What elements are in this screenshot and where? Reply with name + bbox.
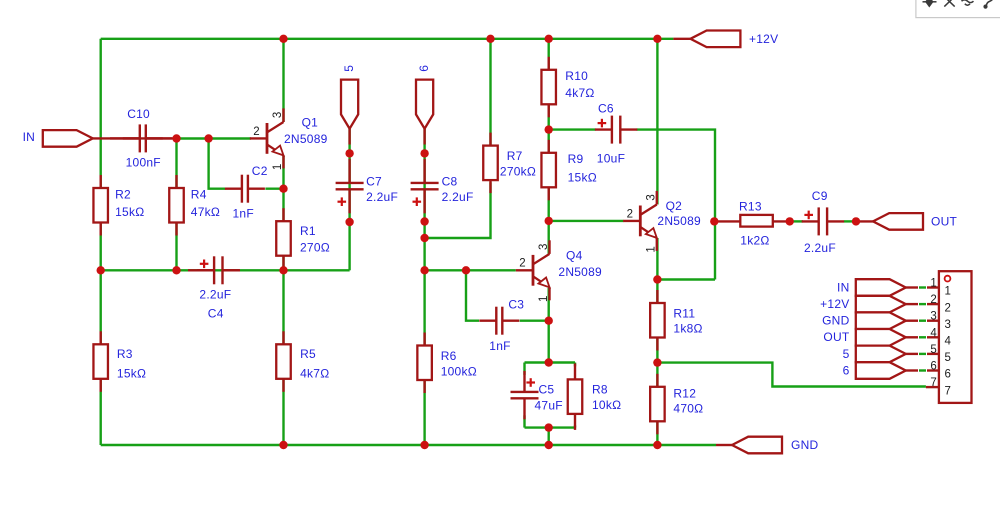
wire C5 R8 top bar: [525, 361, 576, 363]
junction IN row / R4: [172, 134, 180, 142]
svg-text:4: 4: [945, 336, 952, 348]
svg-text:C10: C10: [127, 107, 150, 121]
resistor R2: [93, 175, 144, 236]
svg-text:Q1: Q1: [302, 115, 319, 129]
junction port5 / C7: [345, 149, 353, 157]
capacitor C9 polarized: [802, 207, 844, 235]
capacitor C8 polarized: [411, 159, 439, 213]
wire R12 column: [656, 363, 658, 445]
junction bottom rail / R12: [653, 441, 661, 449]
wire R9 to Q2 base node: [548, 187, 550, 221]
junction Q1 emitter / C2 / R1: [279, 185, 287, 193]
svg-text:+12V: +12V: [820, 297, 849, 311]
connector flag OUT row 4: [856, 329, 939, 346]
wire C5 R8 bottom bar: [525, 426, 576, 428]
svg-text:2: 2: [930, 294, 937, 306]
wire R10 to rail: [548, 39, 550, 70]
svg-text:2.2uF: 2.2uF: [442, 190, 474, 204]
svg-text:OUT: OUT: [823, 330, 850, 344]
svg-text:5: 5: [945, 352, 952, 364]
svg-text:Q4: Q4: [566, 248, 583, 262]
svg-text:1nF: 1nF: [233, 207, 254, 221]
svg-text:7: 7: [930, 377, 937, 389]
wire C6 node to R9: [548, 130, 550, 153]
wire C2 to Q1 emitter node: [265, 187, 283, 189]
svg-text:2.2uF: 2.2uF: [199, 288, 231, 302]
junction R13 / C9: [786, 217, 794, 225]
resistor R10: [541, 57, 594, 118]
wire C8 to R7 link: [425, 182, 491, 238]
junction Q2 emitter: [653, 275, 661, 283]
wire R6 column: [423, 270, 425, 445]
wire R5 column: [282, 270, 284, 445]
resistor R12: [650, 374, 703, 435]
svg-text:2: 2: [253, 126, 259, 138]
svg-text:R7: R7: [507, 149, 523, 163]
junction C8 / R7 link: [420, 234, 428, 242]
toolbar icon close: [944, 0, 954, 7]
wire R8 arm top: [574, 363, 576, 367]
wire C3 to Q4 emitter node: [520, 320, 549, 322]
svg-text:C7: C7: [366, 175, 382, 189]
transistor Q2: [623, 191, 701, 253]
wire GND bottom rail: [101, 444, 716, 446]
svg-text:100kΩ: 100kΩ: [441, 365, 477, 379]
junction bottom rail / R5: [279, 441, 287, 449]
svg-text:10uF: 10uF: [597, 152, 625, 166]
resistor R13: [714, 215, 789, 227]
junction top rail / R10: [545, 35, 553, 43]
svg-text:4k7Ω: 4k7Ω: [300, 366, 329, 380]
port IN flag: [43, 130, 177, 147]
svg-text:R13: R13: [739, 200, 762, 214]
port 5 flag: [341, 80, 358, 145]
svg-text:270Ω: 270Ω: [300, 241, 330, 255]
svg-text:2N5089: 2N5089: [558, 265, 602, 279]
svg-text:GND: GND: [791, 438, 819, 452]
connector J1 box: [939, 271, 972, 403]
connector flag 6 row 6: [856, 362, 939, 379]
wire R13 node to C9: [790, 220, 803, 222]
svg-text:2N5089: 2N5089: [284, 132, 328, 146]
svg-text:R5: R5: [300, 347, 316, 361]
svg-text:C5: C5: [539, 383, 555, 397]
junction output node / R13: [710, 217, 718, 225]
junction bias row / R1: [279, 266, 287, 274]
junction IN row / C2 branch: [204, 134, 212, 142]
junction bottom rail / R6: [420, 441, 428, 449]
transistor Q1: [250, 108, 328, 170]
junction top rail / R7: [486, 35, 494, 43]
wire C6 left wire: [549, 128, 596, 130]
wire R7 to rail: [489, 39, 491, 146]
svg-text:100nF: 100nF: [126, 155, 161, 169]
capacitor C4 polarized: [197, 256, 239, 284]
svg-text:2: 2: [519, 258, 525, 270]
junction bias row / R2 R3: [97, 266, 105, 274]
wire bias row: [101, 269, 350, 271]
wire R8 arm bottom: [574, 425, 576, 427]
junction C8 col / Q4 base row: [420, 266, 428, 274]
svg-text:5: 5: [843, 347, 850, 361]
svg-text:R3: R3: [117, 347, 133, 361]
junction C7 bottom: [345, 218, 353, 226]
connector flag 5 row 5: [856, 346, 939, 363]
toolbar icon settings: [962, 0, 974, 5]
wire IN row segment to Q1 base: [209, 137, 251, 139]
svg-text:5: 5: [930, 344, 937, 356]
svg-text:1k8Ω: 1k8Ω: [673, 322, 702, 336]
wire C6 right wire to output node: [637, 130, 715, 280]
wire Q4 emitter link: [548, 288, 550, 321]
svg-text:4: 4: [930, 327, 937, 339]
junction C9 / OUT: [852, 217, 860, 225]
svg-text:2.2uF: 2.2uF: [804, 241, 836, 255]
svg-text:470Ω: 470Ω: [673, 402, 703, 416]
capacitor C3: [479, 307, 519, 335]
svg-text:1nF: 1nF: [489, 339, 510, 353]
svg-text:15kΩ: 15kΩ: [568, 171, 597, 185]
wire C7 column: [348, 129, 350, 222]
svg-text:7: 7: [945, 385, 952, 397]
wire C3 branch: [466, 270, 479, 320]
junction Q4 emitter / C3: [545, 317, 553, 325]
wire wire to header pin7: [657, 363, 926, 387]
junction C5 R8 bottom: [545, 423, 553, 431]
resistor R4: [169, 175, 220, 236]
wire C5 left arm bottom: [523, 415, 525, 427]
toolbar icon help: [984, 0, 993, 8]
C4 right pin extension: [222, 269, 240, 271]
svg-text:R4: R4: [191, 187, 207, 201]
wire Q2 emitter link: [656, 238, 658, 280]
svg-text:2N5089: 2N5089: [657, 214, 701, 228]
svg-text:2: 2: [627, 208, 633, 220]
wire C2 branch: [209, 139, 226, 189]
svg-text:R12: R12: [673, 387, 696, 401]
wire Q2 collector to rail: [656, 39, 658, 205]
wire R4 column: [175, 139, 177, 271]
svg-text:C3: C3: [508, 297, 524, 311]
svg-text:1k2Ω: 1k2Ω: [740, 233, 769, 247]
svg-text:15kΩ: 15kΩ: [115, 205, 144, 219]
svg-text:10kΩ: 10kΩ: [592, 398, 621, 412]
wire Q4 base row: [425, 269, 516, 271]
C4 left pin extension: [188, 269, 214, 271]
junction top rail / Q1 collector: [279, 35, 287, 43]
svg-text:C2: C2: [252, 164, 268, 178]
wire C9 to OUT port: [844, 220, 856, 222]
svg-text:C6: C6: [598, 102, 614, 116]
power flag +12V: [673, 31, 740, 48]
svg-text:15kΩ: 15kΩ: [117, 366, 146, 380]
toolbar overlay box: [916, 0, 1000, 18]
wire IN row segment dot to dot: [177, 137, 209, 139]
svg-text:R1: R1: [300, 224, 316, 238]
junction R9 / Q2 base / Q4 collector: [545, 217, 553, 225]
capacitor C6 polarized: [595, 116, 637, 144]
junction bias row / R4: [172, 266, 180, 274]
wire Q1 emitter to R1: [282, 156, 284, 271]
connector pin1 indicator circle: [945, 276, 951, 282]
svg-text:6: 6: [930, 361, 937, 373]
svg-text:IN: IN: [837, 280, 850, 294]
wire left rail vertical: [99, 39, 101, 445]
svg-text:1: 1: [945, 286, 952, 298]
capacitor C5 polarized: [511, 371, 539, 419]
resistor R3: [93, 331, 146, 392]
svg-text:3: 3: [945, 319, 952, 331]
wire Q2 emitter to output vertical: [657, 278, 715, 280]
svg-text:+12V: +12V: [749, 32, 778, 46]
svg-text:R11: R11: [673, 307, 695, 321]
wire C8 column: [423, 129, 425, 271]
svg-text:C9: C9: [812, 189, 828, 203]
svg-text:3: 3: [645, 194, 657, 200]
junction C5 R8 top: [545, 358, 553, 366]
svg-text:6: 6: [945, 369, 952, 381]
svg-text:R8: R8: [592, 383, 608, 397]
wire Q4 collector link: [548, 221, 550, 254]
wire C7 bottom to bias row: [348, 222, 350, 270]
junction R11 / R12 / pin7 wire: [653, 358, 661, 366]
svg-text:GND: GND: [822, 314, 850, 328]
resistor R7: [483, 133, 498, 194]
svg-text:3: 3: [272, 112, 284, 118]
svg-text:270kΩ: 270kΩ: [500, 164, 536, 178]
capacitor C2: [225, 175, 265, 203]
C10 right pin extension: [146, 137, 172, 139]
transistor Q4: [516, 240, 602, 302]
svg-text:1: 1: [930, 278, 937, 290]
svg-text:6: 6: [843, 363, 850, 377]
connector flag +12V row 2: [856, 296, 939, 313]
svg-text:R2: R2: [115, 187, 131, 201]
junction top rail / Q2 collector: [653, 35, 661, 43]
wire +12V top rail: [101, 38, 674, 40]
capacitor C10: [123, 124, 163, 152]
svg-text:R9: R9: [568, 152, 584, 166]
svg-text:1: 1: [272, 164, 284, 170]
wire C5 left arm top: [523, 363, 525, 375]
svg-text:2.2uF: 2.2uF: [366, 190, 398, 204]
svg-text:C8: C8: [442, 175, 458, 189]
C10 left pin extension: [110, 137, 139, 139]
svg-text:3: 3: [930, 311, 937, 323]
wire Q2 base row: [549, 220, 624, 222]
resistor R1: [276, 208, 330, 269]
wire C5 R8 top node drop: [548, 321, 550, 363]
resistor R8: [568, 363, 622, 430]
svg-text:47uF: 47uF: [535, 399, 563, 413]
junction C3 branch: [462, 266, 470, 274]
svg-text:4k7Ω: 4k7Ω: [565, 86, 594, 100]
connector flag GND row 3: [856, 312, 939, 329]
wire R10 to C6 node: [548, 104, 550, 129]
svg-text:Q2: Q2: [666, 199, 683, 213]
svg-text:C4: C4: [208, 307, 224, 321]
svg-text:R10: R10: [565, 69, 588, 83]
resistor R9: [541, 140, 596, 201]
wire C5 R8 bottom drop to rail: [548, 428, 550, 445]
junction port6 / C8: [420, 149, 428, 157]
ground flag GND: [716, 437, 782, 454]
wire R11 column: [656, 280, 658, 363]
svg-text:47kΩ: 47kΩ: [191, 205, 220, 219]
svg-text:6: 6: [417, 65, 431, 72]
junction R10 / R9 / C6: [545, 125, 553, 133]
resistor R6: [417, 333, 477, 394]
svg-text:1: 1: [538, 296, 550, 302]
svg-text:2: 2: [945, 302, 952, 314]
capacitor C7 polarized: [336, 159, 364, 213]
connector flag IN row 1: [856, 279, 939, 296]
port 6 flag: [416, 80, 433, 145]
svg-text:3: 3: [538, 244, 550, 250]
svg-text:OUT: OUT: [931, 215, 958, 229]
junction bottom rail / C5 R8: [545, 441, 553, 449]
connector pin7 stub: [926, 386, 939, 388]
resistor R11: [650, 290, 703, 351]
port OUT flag: [856, 213, 923, 230]
svg-text:R6: R6: [441, 349, 457, 363]
wire Q1 collector to rail: [282, 39, 284, 122]
resistor R5: [276, 331, 329, 392]
toolbar icon move: [923, 0, 937, 6]
svg-text:IN: IN: [23, 130, 35, 144]
junction C8 bottom: [420, 217, 428, 225]
svg-text:1: 1: [645, 246, 657, 252]
svg-text:5: 5: [342, 65, 356, 72]
